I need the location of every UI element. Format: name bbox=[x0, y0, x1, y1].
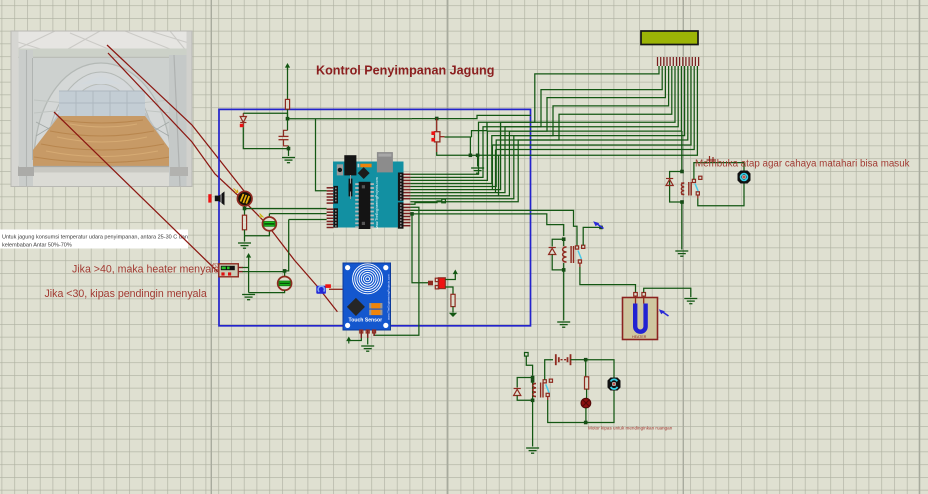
wire coil bottom bbox=[563, 263, 565, 270]
wire LCD bus 12a bbox=[495, 150, 497, 193]
wire to terminal T1 bbox=[410, 201, 441, 204]
touch sensor pins bbox=[361, 330, 374, 338]
wire to fan bbox=[586, 360, 614, 378]
RL1 label marks bbox=[707, 156, 717, 163]
wire arduino to touch sensor OUT bbox=[374, 207, 419, 335]
svg-text:kelembaban Antar 50%-70%: kelembaban Antar 50%-70% bbox=[2, 243, 72, 249]
terminal T2 bbox=[525, 353, 529, 357]
diode D4 bbox=[549, 248, 556, 255]
heater HT1 bbox=[623, 298, 658, 340]
terminal arrow (blue) at touch sensor bbox=[316, 286, 326, 294]
wire to R4 bbox=[585, 360, 587, 377]
wire LCD bus 6 bbox=[410, 66, 675, 190]
wire node rail top bbox=[412, 115, 531, 118]
wire coil top bbox=[563, 239, 565, 246]
power arrow touch bbox=[346, 337, 351, 342]
wire RL2 to terminal bbox=[583, 227, 599, 245]
battery BAT1 bbox=[556, 354, 571, 365]
wire LCD bus 13b bbox=[499, 66, 698, 155]
LED D2 top-left bbox=[240, 113, 246, 127]
annotation line to touch sensor bbox=[108, 53, 337, 312]
touch sensor module bbox=[343, 263, 391, 330]
svg-text:Jika >40, maka heater menyala: Jika >40, maka heater menyala bbox=[72, 264, 220, 276]
thermistor TH1 (green circle) bbox=[263, 217, 277, 231]
wire LCD bus 11a bbox=[491, 145, 493, 190]
junction RL1 top bbox=[680, 170, 684, 174]
wire RL1 to motor bbox=[694, 163, 744, 180]
resistor R3 bbox=[451, 294, 455, 306]
power arrow VCC bbox=[285, 63, 290, 68]
wire arduino left top bbox=[316, 119, 327, 191]
power arrow sensors bbox=[246, 253, 251, 258]
wire arduino to relay RL2 coil bbox=[410, 214, 563, 236]
humidity sensor module HIH bbox=[219, 264, 243, 277]
wire R3 to ground bbox=[452, 307, 454, 313]
terminal T1 bbox=[442, 199, 446, 203]
potentiometer RV2 bbox=[428, 281, 433, 286]
relay RL1 contacts bbox=[692, 179, 695, 182]
svg-text:HEATER: HEATER bbox=[632, 335, 647, 339]
resistor R1 bbox=[285, 99, 289, 109]
ground G3 bbox=[238, 243, 251, 248]
wire rail to bus bbox=[478, 154, 499, 156]
junction RL2 top bbox=[562, 237, 566, 241]
svg-text:www.TheEngineeringProjects.com: www.TheEngineeringProjects.com bbox=[387, 274, 391, 320]
wire to arduino A2 bbox=[289, 219, 327, 221]
svg-text:Touch Sensor: Touch Sensor bbox=[349, 318, 383, 324]
motor M1 (roof motor) bbox=[738, 171, 751, 184]
wire touch gnd bbox=[367, 338, 369, 345]
wire down to pot RV2 wiper bbox=[412, 214, 428, 283]
wire LCD bus 1 bbox=[410, 66, 659, 174]
relay coil RL2 bbox=[563, 247, 567, 262]
wire RL2 to heater bbox=[580, 267, 636, 292]
wire touch vcc bbox=[352, 338, 361, 341]
ground G6 bbox=[361, 346, 374, 351]
svg-text:Untuk jagung konsumsi temperat: Untuk jagung konsumsi temperatur udara p… bbox=[2, 235, 188, 241]
ground G9 bbox=[684, 299, 697, 304]
blue border box bbox=[219, 109, 531, 325]
wire module vcc bbox=[243, 267, 249, 269]
junction RL3 c bbox=[531, 399, 535, 403]
wire LCD bus 2 bbox=[410, 66, 662, 177]
junction bbox=[469, 154, 473, 158]
wire RV2 to R3 bbox=[445, 287, 453, 294]
diode D5 bbox=[514, 389, 521, 396]
junction RL1 bottom bbox=[680, 200, 684, 204]
terminal arrow blue heater bbox=[662, 312, 669, 317]
wire motor top bbox=[743, 163, 745, 171]
wire feed RL1 bbox=[681, 131, 683, 172]
wire to ground G2 bbox=[477, 155, 479, 166]
wire coil link bbox=[532, 381, 534, 400]
wire stub bus bbox=[472, 122, 488, 137]
resistor R4 bbox=[585, 377, 589, 389]
annotation line to LDR bbox=[107, 45, 248, 196]
wire RL3 diode bottom bbox=[517, 396, 532, 401]
wire LCD bus 5 bbox=[410, 66, 671, 187]
wire RV2 to arrow bbox=[445, 276, 455, 280]
junction term bbox=[599, 226, 603, 230]
ground G10 bbox=[526, 448, 539, 453]
wire LCD bus 10 bbox=[410, 66, 687, 202]
wire down to TH1 bbox=[268, 214, 270, 218]
wire C1 to ground bbox=[288, 146, 290, 156]
wire vcc to R1 bbox=[287, 67, 289, 99]
ground G4 bbox=[242, 295, 255, 300]
capacitor C1 bbox=[279, 130, 289, 146]
svg-text:Kontrol Penyimpanan Jagung: Kontrol Penyimpanan Jagung bbox=[316, 64, 494, 78]
thermistor TH2 (green circle) bbox=[278, 277, 292, 291]
svg-text:Membuka atap agar cahaya matah: Membuka atap agar cahaya matahari bisa m… bbox=[695, 159, 910, 170]
ground G2 bbox=[471, 168, 484, 173]
LCD LCD1 bbox=[641, 31, 698, 45]
wire R2 to TH1 bottom bbox=[245, 231, 270, 236]
wire RV1 wiper to bus bbox=[445, 136, 472, 138]
junction gnd rail bbox=[287, 147, 291, 151]
wire TH2 to gnd rail bbox=[249, 290, 285, 292]
resistor R2 bbox=[242, 215, 246, 230]
wire T2 to RL3 bbox=[526, 356, 532, 376]
relay RL3 contacts bbox=[543, 380, 546, 383]
junction RV1 top bbox=[435, 117, 439, 121]
wire LCD bus 3 bbox=[410, 66, 665, 180]
ground G8 bbox=[557, 322, 570, 327]
wire LCD bus 8 bbox=[410, 66, 681, 196]
wire arduino to relay RL2 contact bbox=[410, 210, 577, 245]
wire RL3 to battery bbox=[545, 360, 553, 380]
junction fan top bbox=[584, 358, 588, 362]
wire RL2 diode bottom bbox=[552, 255, 564, 270]
wire node rail left bbox=[288, 118, 413, 120]
LED D6 (indicator) bbox=[581, 398, 591, 408]
wire motor bottom loop bbox=[698, 184, 744, 206]
wire LCD bus 13a bbox=[498, 155, 500, 195]
wire right drop bbox=[469, 137, 471, 155]
annotation line to humidity module bbox=[54, 112, 218, 272]
wire R4 to LED bbox=[586, 389, 588, 399]
ground G5 (solid) bbox=[449, 313, 457, 317]
wire LCD bus 9 bbox=[410, 66, 684, 199]
wire RL3 diode top bbox=[517, 378, 532, 388]
diode D3 bbox=[666, 179, 673, 186]
wire vert arrow-gnd bbox=[248, 258, 250, 293]
wire node to C1 bbox=[287, 119, 289, 131]
wire RL1 diode loop bbox=[670, 172, 682, 203]
wire thermistor to arduino A1 bbox=[269, 213, 326, 215]
wire LED to rail bbox=[585, 408, 587, 423]
wire R1 to node bbox=[287, 109, 289, 119]
junction RL3 a bbox=[531, 376, 535, 380]
ground G7 bbox=[675, 251, 688, 256]
wire RL2 to ground bbox=[563, 270, 565, 321]
wire battery to junction bbox=[571, 359, 586, 361]
junction LDR bbox=[243, 207, 247, 211]
greenhouse photo bbox=[11, 31, 192, 187]
fan motor M2 bbox=[608, 378, 621, 391]
relay coil RL3 bbox=[533, 384, 536, 397]
wire RL2 diode top bbox=[552, 239, 564, 246]
wire LCD bus 12b bbox=[496, 66, 695, 150]
power arrow RV2 bbox=[453, 270, 458, 275]
wire LCD bus 4 bbox=[410, 66, 668, 184]
wire R2 to ground bbox=[244, 230, 246, 242]
svg-text:Jika <30, kipas pendingin meny: Jika <30, kipas pendingin menyala bbox=[45, 288, 207, 300]
arduino pin stubs bbox=[327, 174, 411, 227]
wire LCD bus 11b bbox=[492, 66, 691, 145]
Arduino Uno board bbox=[333, 152, 404, 232]
major sheet divider lines bbox=[211, 0, 919, 494]
wire D2 to node bbox=[243, 113, 287, 119]
wire module out bbox=[243, 271, 285, 273]
wire RL3 to ground bbox=[532, 400, 534, 446]
relay RL2 contacts bbox=[575, 246, 578, 249]
relay coil RL1 bbox=[681, 183, 684, 195]
junction A bbox=[410, 212, 414, 216]
junction RL2 bottom bbox=[562, 268, 566, 272]
wire to gnd node bbox=[470, 154, 477, 156]
ground G1 bbox=[282, 158, 295, 163]
LDR LDR1 bbox=[237, 191, 252, 206]
junction bbox=[476, 154, 480, 158]
wire LCD bus 7 bbox=[410, 66, 678, 193]
speaker LS1 bbox=[208, 191, 224, 205]
wire down to TH2 bbox=[285, 220, 289, 277]
junction fan bottom bbox=[584, 421, 588, 425]
potentiometer RV1 bbox=[435, 132, 440, 142]
wire LDR to R2 bbox=[244, 206, 246, 215]
wire RL1 to ground bbox=[681, 202, 683, 250]
node junction bbox=[286, 117, 290, 121]
junction TH2 bbox=[283, 269, 287, 273]
svg-text:www.TheEngineeringProjects.com: www.TheEngineeringProjects.com bbox=[375, 177, 379, 229]
wire D2 to gnd rail bbox=[243, 127, 288, 148]
note box bbox=[0, 230, 188, 249]
svg-text:Motor kipas untuk mendinginkan: Motor kipas untuk mendinginkan ruangan bbox=[588, 426, 673, 431]
wire heater to ground bbox=[644, 288, 691, 297]
LCD pin stubs bbox=[658, 57, 699, 66]
wire LDR node to arduino A0 bbox=[245, 208, 327, 210]
wire fan bottom rail bbox=[548, 391, 614, 423]
junction RL3 b bbox=[531, 379, 535, 383]
terminal arrow blue RL2 bbox=[597, 224, 604, 229]
wire RV1 bottom bbox=[437, 152, 471, 155]
